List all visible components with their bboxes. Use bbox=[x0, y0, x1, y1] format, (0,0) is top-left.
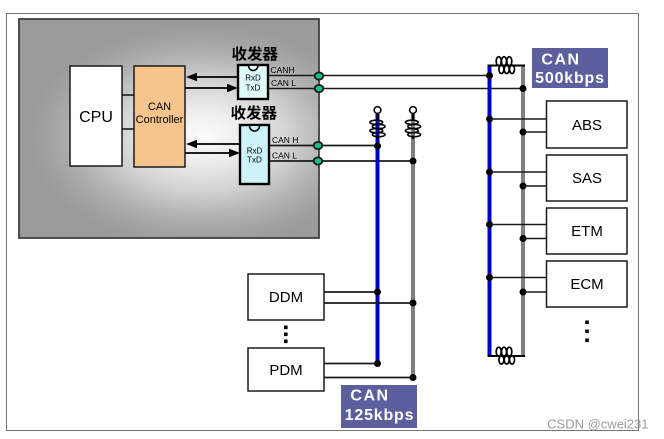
svg-text:CAN L: CAN L bbox=[271, 78, 296, 88]
svg-text:CAN L: CAN L bbox=[272, 151, 297, 161]
svg-text:Controller: Controller bbox=[136, 114, 184, 126]
svg-text:CAN H: CAN H bbox=[272, 135, 298, 145]
svg-text:PDM: PDM bbox=[269, 362, 302, 379]
svg-text:CAN: CAN bbox=[350, 388, 389, 405]
svg-text:500kbps: 500kbps bbox=[535, 70, 605, 87]
svg-text:RxD: RxD bbox=[245, 74, 261, 83]
svg-text:CANH: CANH bbox=[271, 65, 295, 75]
svg-text:TxD: TxD bbox=[247, 156, 262, 165]
svg-text:RxD: RxD bbox=[247, 147, 263, 156]
svg-text:ABS: ABS bbox=[572, 117, 602, 134]
svg-text:CSDN @cwei231: CSDN @cwei231 bbox=[547, 417, 648, 432]
svg-text:CAN: CAN bbox=[541, 52, 580, 69]
svg-text:CPU: CPU bbox=[79, 109, 113, 126]
svg-text:TxD: TxD bbox=[246, 84, 261, 93]
svg-text:ETM: ETM bbox=[571, 223, 603, 240]
svg-text:CAN: CAN bbox=[148, 101, 171, 113]
svg-text:ECM: ECM bbox=[570, 276, 603, 293]
svg-text:125kbps: 125kbps bbox=[345, 407, 415, 424]
svg-text:SAS: SAS bbox=[572, 170, 602, 187]
svg-text:DDM: DDM bbox=[269, 289, 303, 306]
